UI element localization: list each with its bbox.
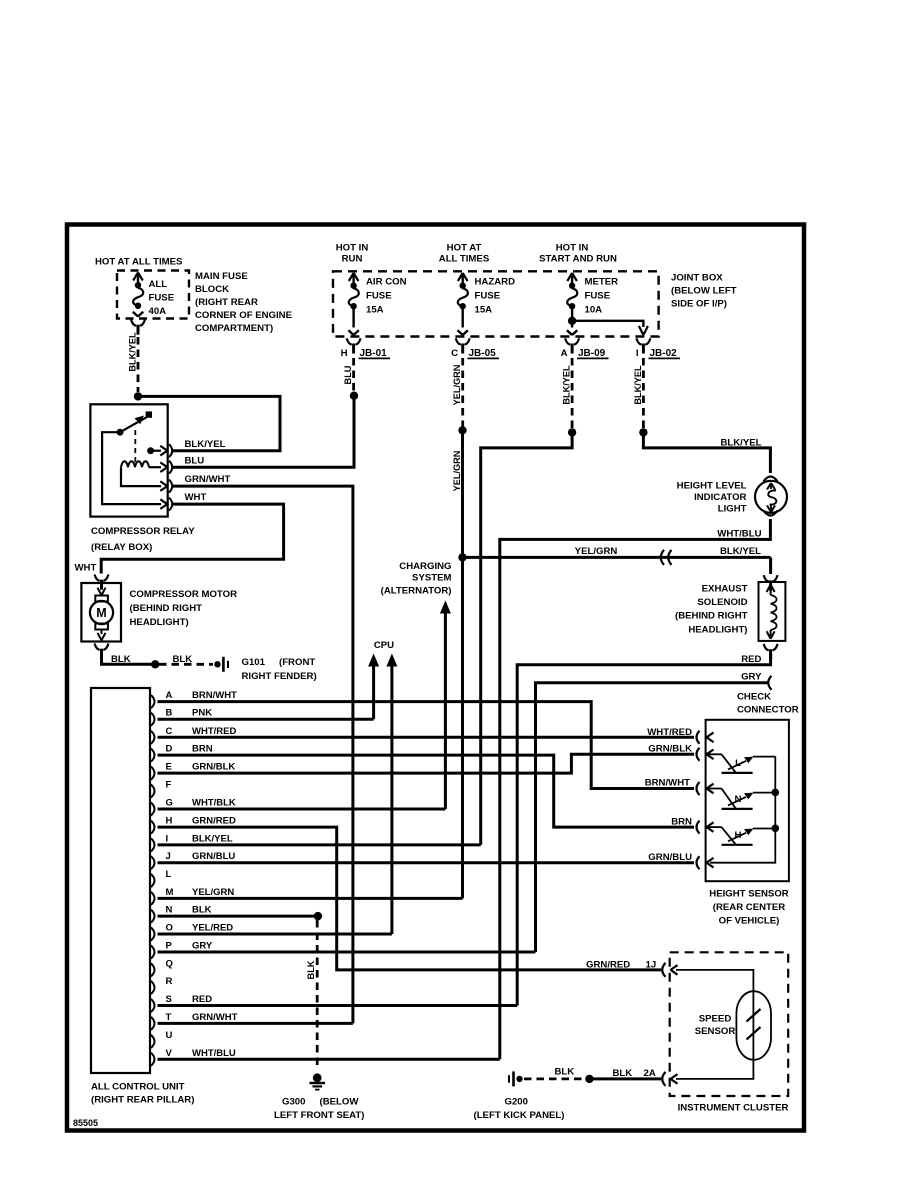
- connector above solenoid: [764, 575, 778, 590]
- fuse HAZARD 15A: [458, 273, 468, 335]
- wire GRN/WHT relay to row T: [172, 486, 353, 1023]
- svg-text:BRN/WHT: BRN/WHT: [192, 690, 237, 701]
- svg-text:ALL: ALL: [149, 279, 168, 290]
- svg-text:10A: 10A: [585, 305, 603, 316]
- wire row B PNK: [158, 718, 374, 721]
- svg-text:GRN/WHT: GRN/WHT: [192, 1012, 238, 1023]
- svg-text:N: N: [166, 905, 173, 916]
- wire YEL/GRN to solenoid: [463, 556, 771, 559]
- svg-text:HEIGHT LEVEL: HEIGHT LEVEL: [677, 481, 747, 492]
- svg-text:G200: G200: [505, 1097, 528, 1108]
- label BLK 2A: [613, 1068, 656, 1079]
- wire BLK dashed to G300: [316, 920, 319, 1070]
- wire row O YEL/RED: [158, 933, 392, 936]
- wire BLU to relay: [172, 396, 354, 468]
- connector below main fuse: [131, 320, 145, 335]
- cpu arrow 2: [386, 654, 397, 935]
- label HEIGHT SENSOR (REAR CENTER OF VEHICLE): [709, 889, 788, 927]
- wire YEL/GRN down to branch: [461, 430, 464, 557]
- svg-text:L: L: [735, 758, 741, 769]
- connector above motor: [95, 575, 109, 590]
- wire row E GRN/BLK: [158, 754, 695, 773]
- label CPU: [374, 640, 394, 651]
- wire BLK dashed from G200: [524, 1078, 585, 1081]
- svg-text:WHT: WHT: [75, 563, 97, 574]
- label CHARGING SYSTEM (ALTERNATOR): [381, 561, 452, 597]
- label GRN/BLU hs: [648, 852, 692, 863]
- control unit pin brackets: [151, 695, 155, 1066]
- svg-text:RED: RED: [192, 994, 212, 1005]
- svg-text:CPU: CPU: [374, 640, 394, 651]
- cluster wire from speed sensor: [676, 1060, 753, 1079]
- wire RED from solenoid: [517, 654, 770, 1006]
- connector below light: [764, 511, 778, 516]
- label BLU relay: [185, 456, 205, 467]
- svg-text:2A: 2A: [644, 1068, 656, 1079]
- wire row G WHT/BLK: [158, 808, 446, 811]
- svg-text:INSTRUMENT CLUSTER: INSTRUMENT CLUSTER: [678, 1103, 789, 1114]
- svg-text:CORNER OF ENGINE: CORNER OF ENGINE: [195, 310, 293, 321]
- svg-text:E: E: [166, 762, 172, 773]
- svg-text:METER: METER: [585, 277, 619, 288]
- label WHT relay: [185, 492, 207, 503]
- svg-text:FUSE: FUSE: [585, 291, 611, 302]
- motor circle M: [90, 601, 113, 624]
- inline connector break: [661, 550, 672, 565]
- node junction BLK motor: [151, 660, 159, 668]
- label GRN/RED 1J: [586, 960, 656, 971]
- connector below solenoid: [764, 644, 778, 659]
- wire BLK motor to ground: [102, 653, 153, 664]
- svg-text:BRN/WHT: BRN/WHT: [645, 778, 690, 789]
- svg-text:BLK/YEL: BLK/YEL: [720, 438, 761, 449]
- svg-text:BLK/YEL: BLK/YEL: [562, 365, 572, 405]
- svg-text:H: H: [341, 348, 348, 359]
- connector above light: [764, 477, 778, 482]
- connector I JB-02: [636, 338, 680, 359]
- svg-text:RED: RED: [741, 654, 761, 665]
- cluster contact 1J: [662, 963, 677, 977]
- wire meter fuse to JB-02 output: [572, 321, 648, 335]
- label BLK left: [111, 654, 131, 665]
- svg-text:1J: 1J: [646, 960, 657, 971]
- wire BLK/YEL JB-09 to row I vertical: [481, 432, 572, 845]
- svg-text:COMPRESSOR RELAY: COMPRESSOR RELAY: [91, 526, 195, 537]
- svg-text:LEFT FRONT SEAT): LEFT FRONT SEAT): [274, 1110, 364, 1121]
- node junction BLK/YEL JB-02: [639, 428, 647, 436]
- svg-text:LIGHT: LIGHT: [718, 504, 747, 515]
- svg-text:85505: 85505: [73, 1118, 98, 1128]
- svg-text:BRN: BRN: [192, 744, 213, 755]
- label HOT IN RUN: [336, 243, 369, 265]
- svg-text:BLK/YEL: BLK/YEL: [720, 546, 761, 557]
- svg-text:BLK/YEL: BLK/YEL: [185, 439, 226, 450]
- label HOT AT ALL TIMES (hazard): [439, 243, 490, 265]
- relay coil: [121, 461, 149, 467]
- label HOT AT ALL TIMES: [95, 257, 183, 268]
- svg-text:BLU: BLU: [343, 365, 353, 384]
- svg-text:H: H: [166, 816, 173, 827]
- label YEL/GRN horizontal: [575, 546, 618, 557]
- svg-text:YEL/GRN: YEL/GRN: [575, 546, 618, 557]
- svg-text:FUSE: FUSE: [149, 293, 175, 304]
- svg-text:ALL CONTROL UNIT: ALL CONTROL UNIT: [91, 1082, 185, 1093]
- ground G300: [310, 1073, 326, 1089]
- svg-text:JB-05: JB-05: [469, 348, 497, 359]
- svg-text:CHECK: CHECK: [737, 692, 771, 703]
- svg-text:J: J: [166, 851, 171, 862]
- label WHT near motor: [75, 563, 97, 574]
- svg-text:WHT/RED: WHT/RED: [192, 726, 236, 737]
- svg-text:(RIGHT REAR PILLAR): (RIGHT REAR PILLAR): [91, 1095, 194, 1106]
- wire WHT relay to motor: [101, 504, 283, 573]
- svg-text:C: C: [166, 726, 173, 737]
- wire BLK/YEL dashed from main fuse: [137, 337, 140, 392]
- svg-text:GRN/RED: GRN/RED: [192, 816, 236, 827]
- node junction BLK G200: [585, 1075, 593, 1083]
- svg-text:S: S: [166, 994, 172, 1005]
- svg-text:(BELOW: (BELOW: [320, 1097, 360, 1108]
- svg-text:L: L: [166, 869, 172, 880]
- connector C JB-05: [451, 338, 499, 359]
- svg-text:GRN/RED: GRN/RED: [586, 960, 630, 971]
- svg-text:YEL/GRN: YEL/GRN: [192, 887, 234, 898]
- connector below motor: [95, 644, 109, 659]
- svg-text:WHT/BLU: WHT/BLU: [192, 1048, 236, 1059]
- height sensor element H: [708, 827, 775, 845]
- label AIR CON FUSE 15A: [366, 277, 407, 316]
- wire row J GRN/BLU: [158, 861, 695, 864]
- motor top arrow: [98, 583, 106, 595]
- svg-text:M: M: [166, 887, 174, 898]
- label BLK/YEL vertical JB-02: [633, 365, 643, 405]
- svg-text:RUN: RUN: [342, 254, 363, 265]
- wire BLK dashed to G101: [159, 663, 213, 666]
- relay contact brackets: [169, 444, 172, 510]
- svg-text:P: P: [166, 941, 173, 952]
- height sensor bus: [710, 756, 775, 862]
- svg-text:WHT/BLK: WHT/BLK: [192, 798, 236, 809]
- label JOINT BOX: [671, 273, 737, 310]
- node meter fuse branch: [568, 317, 576, 325]
- label YEL/GRN vertical upper: [452, 364, 462, 405]
- svg-text:YEL/GRN: YEL/GRN: [452, 364, 462, 405]
- label CHECK CONNECTOR: [737, 692, 799, 716]
- label WHT/RED hs: [647, 727, 692, 738]
- indicator light circle: [755, 481, 787, 513]
- svg-text:GRY: GRY: [192, 941, 213, 952]
- label HEIGHT LEVEL INDICATOR LIGHT: [677, 481, 747, 515]
- wire row I BLK/YEL: [158, 843, 481, 846]
- svg-text:H: H: [735, 830, 742, 841]
- label BLK/YEL relay: [185, 439, 226, 450]
- svg-text:G300: G300: [282, 1097, 305, 1108]
- label BLU vertical: [343, 365, 353, 384]
- label BLK G200: [555, 1067, 575, 1078]
- svg-text:COMPARTMENT): COMPARTMENT): [195, 323, 273, 334]
- node bus junction N: [772, 789, 780, 797]
- charging system arrow: [440, 601, 451, 810]
- svg-text:HOT AT: HOT AT: [447, 243, 482, 254]
- svg-text:B: B: [166, 708, 173, 719]
- fuse METER 10A: [567, 273, 577, 335]
- svg-text:BLK: BLK: [111, 654, 131, 665]
- label BLK/YEL vertical: [128, 332, 138, 372]
- relay coil to GRN/WHT contact: [121, 467, 167, 491]
- svg-text:ALL TIMES: ALL TIMES: [439, 254, 490, 265]
- svg-text:(REAR CENTER: (REAR CENTER: [713, 902, 786, 913]
- cluster contact 2A: [662, 1072, 677, 1086]
- relay coil to BLU contact: [149, 462, 168, 472]
- svg-text:BLK: BLK: [613, 1068, 633, 1079]
- svg-text:HOT AT ALL TIMES: HOT AT ALL TIMES: [95, 257, 183, 268]
- label MAIN FUSE BLOCK: [195, 271, 293, 334]
- svg-text:JOINT BOX: JOINT BOX: [671, 273, 723, 284]
- height sensor box: [706, 720, 789, 881]
- svg-text:O: O: [166, 923, 173, 934]
- svg-text:15A: 15A: [475, 305, 493, 316]
- motor commutator top: [95, 596, 108, 602]
- svg-text:C: C: [451, 348, 458, 359]
- svg-text:40A: 40A: [149, 306, 167, 317]
- height sensor element L: [708, 754, 775, 773]
- svg-text:BLOCK: BLOCK: [195, 284, 229, 295]
- ground G101: [214, 657, 228, 672]
- label GRN/WHT relay: [185, 474, 231, 485]
- wire row A BRN/WHT: [158, 702, 695, 789]
- check connector bracket: [768, 676, 771, 690]
- label METER FUSE 10A: [585, 277, 619, 316]
- wire YEL/GRN down to row M: [461, 557, 464, 898]
- wire BLK/YEL dashed from JB-02: [642, 358, 645, 429]
- fuse ALL FUSE 40A: [133, 273, 143, 317]
- svg-text:(LEFT KICK PANEL): (LEFT KICK PANEL): [474, 1110, 565, 1121]
- cpu arrow 1: [368, 654, 379, 720]
- svg-text:MAIN FUSE: MAIN FUSE: [195, 271, 248, 282]
- svg-text:EXHAUST: EXHAUST: [702, 584, 748, 595]
- svg-text:(BEHIND RIGHT: (BEHIND RIGHT: [130, 603, 203, 614]
- svg-text:BLK: BLK: [192, 905, 212, 916]
- svg-text:AIR CON: AIR CON: [366, 277, 407, 288]
- svg-text:I: I: [166, 833, 169, 844]
- svg-text:YEL/RED: YEL/RED: [192, 923, 233, 934]
- speed sensor element: [747, 992, 761, 1060]
- svg-text:A: A: [166, 690, 173, 701]
- label INSTRUMENT CLUSTER: [678, 1103, 789, 1114]
- wire row D BRN: [158, 755, 695, 827]
- exhaust solenoid box: [759, 582, 786, 641]
- svg-text:CHARGING: CHARGING: [399, 561, 451, 572]
- svg-text:HAZARD: HAZARD: [475, 277, 516, 288]
- svg-text:A: A: [561, 348, 568, 359]
- wire WHT/BLU from light: [500, 519, 771, 1059]
- svg-text:F: F: [166, 780, 172, 791]
- label COMPRESSOR MOTOR: [130, 589, 238, 628]
- svg-text:COMPRESSOR MOTOR: COMPRESSOR MOTOR: [130, 589, 238, 600]
- label ALL CONTROL UNIT: [91, 1082, 194, 1106]
- svg-text:WHT: WHT: [185, 492, 207, 503]
- joint box dashed box: [333, 271, 659, 336]
- speed sensor oval: [736, 991, 771, 1060]
- motor bottom arrow: [98, 630, 106, 641]
- all control unit box: [91, 688, 150, 1073]
- wire BLK/YEL JB-02 to indicator light: [643, 432, 770, 473]
- svg-text:YEL/GRN: YEL/GRN: [452, 450, 462, 491]
- label SPEED SENSOR: [695, 1014, 736, 1038]
- wire YEL/GRN dashed from JB-05: [461, 358, 464, 427]
- wire row T GRN/WHT: [158, 1022, 353, 1025]
- wire BLK/YEL dashed from JB-09: [571, 358, 574, 429]
- wire BLU dashed from JB-01: [352, 358, 355, 392]
- svg-text:Q: Q: [166, 958, 173, 969]
- height sensor element N: [708, 789, 775, 809]
- label BLK vertical: [306, 960, 316, 979]
- svg-text:G: G: [166, 798, 173, 809]
- svg-text:(RELAY BOX): (RELAY BOX): [91, 542, 152, 553]
- svg-text:SYSTEM: SYSTEM: [412, 573, 451, 584]
- label G300 (BELOW LEFT FRONT SEAT): [274, 1097, 364, 1122]
- border frame: [67, 225, 804, 1131]
- label YEL/GRN vertical lower: [452, 450, 462, 491]
- svg-text:JB-02: JB-02: [650, 348, 678, 359]
- wire BLK/YEL fuse to relay: [138, 396, 280, 450]
- svg-text:HEADLIGHT): HEADLIGHT): [688, 625, 747, 636]
- relay switch: [117, 411, 153, 462]
- cluster wire to speed sensor: [676, 970, 753, 992]
- svg-text:(BELOW LEFT: (BELOW LEFT: [671, 286, 737, 297]
- svg-text:D: D: [166, 744, 173, 755]
- label BLK right: [173, 654, 193, 665]
- wire row M YEL/GRN: [158, 897, 463, 900]
- svg-text:GRY: GRY: [741, 672, 762, 683]
- wire row H GRN/RED: [158, 827, 662, 970]
- motor commutator bottom: [95, 624, 108, 630]
- label HOT IN START AND RUN: [539, 243, 617, 265]
- label BRN hs: [671, 817, 692, 828]
- svg-text:T: T: [166, 1012, 172, 1023]
- svg-text:BLK: BLK: [555, 1067, 575, 1078]
- svg-text:(BEHIND RIGHT: (BEHIND RIGHT: [675, 611, 748, 622]
- main fuse block dashed box: [117, 271, 189, 319]
- svg-text:G101: G101: [242, 657, 266, 668]
- svg-text:(RIGHT REAR: (RIGHT REAR: [195, 297, 258, 308]
- svg-text:JB-01: JB-01: [360, 348, 388, 359]
- svg-text:BLK/YEL: BLK/YEL: [192, 833, 233, 844]
- label COMPRESSOR RELAY: [91, 526, 195, 553]
- svg-text:15A: 15A: [366, 305, 384, 316]
- svg-text:N: N: [735, 794, 742, 805]
- node junction main-fuse BLK/YEL: [134, 392, 142, 400]
- label RED: [741, 654, 761, 665]
- relay BLK/YEL contact: [147, 446, 167, 456]
- svg-text:WHT/BLU: WHT/BLU: [717, 529, 761, 540]
- svg-text:BLK/YEL: BLK/YEL: [633, 365, 643, 405]
- svg-text:GRN/WHT: GRN/WHT: [185, 474, 231, 485]
- svg-text:HEADLIGHT): HEADLIGHT): [130, 617, 189, 628]
- control unit pin labels: [166, 690, 238, 1059]
- label BLK/YEL solenoid: [720, 546, 761, 557]
- label G200 (LEFT KICK PANEL): [474, 1097, 565, 1122]
- svg-text:FUSE: FUSE: [475, 291, 501, 302]
- node junction YEL/GRN upper: [458, 426, 466, 434]
- fuse AIR CON 15A: [348, 273, 358, 335]
- label BLK/YEL horizontal top: [720, 438, 761, 449]
- svg-text:START AND RUN: START AND RUN: [539, 254, 617, 265]
- svg-text:HEIGHT SENSOR: HEIGHT SENSOR: [709, 889, 788, 900]
- wire row C WHT/RED: [158, 736, 695, 739]
- connector A JB-09: [561, 338, 609, 359]
- svg-text:(FRONT: (FRONT: [279, 657, 315, 668]
- svg-text:CONNECTOR: CONNECTOR: [737, 705, 799, 716]
- svg-text:BLU: BLU: [185, 456, 205, 467]
- svg-text:(ALTERNATOR): (ALTERNATOR): [381, 586, 452, 597]
- label BRN/WHT hs: [645, 778, 690, 789]
- svg-text:R: R: [166, 976, 173, 987]
- svg-text:SIDE OF I/P): SIDE OF I/P): [671, 299, 727, 310]
- svg-text:JB-09: JB-09: [578, 348, 606, 359]
- svg-text:GRN/BLU: GRN/BLU: [192, 851, 235, 862]
- label WHT/BLU light: [717, 529, 761, 540]
- svg-text:HOT IN: HOT IN: [336, 243, 369, 254]
- svg-text:BLK: BLK: [306, 960, 316, 979]
- instrument cluster dashed box: [670, 952, 789, 1096]
- label G101 (FRONT RIGHT FENDER): [242, 657, 317, 682]
- wire BLK solid to cluster: [593, 1077, 661, 1080]
- svg-text:HOT IN: HOT IN: [556, 243, 589, 254]
- node junction BLK/YEL JB-09: [568, 428, 576, 436]
- svg-text:FUSE: FUSE: [366, 291, 392, 302]
- svg-text:RIGHT FENDER): RIGHT FENDER): [242, 671, 317, 682]
- node bus junction H: [772, 825, 780, 833]
- svg-text:I: I: [636, 348, 639, 359]
- wire row P GRY: [158, 951, 536, 954]
- wire row N BLK: [158, 915, 318, 918]
- ground G200: [509, 1071, 523, 1086]
- svg-text:SENSOR: SENSOR: [695, 1026, 736, 1037]
- label GRN/BLK hs: [648, 744, 692, 755]
- wire GRY: [536, 683, 769, 952]
- indicator light filament: [767, 483, 776, 512]
- label ALL FUSE 40A: [149, 279, 175, 317]
- svg-text:SPEED: SPEED: [699, 1014, 732, 1025]
- svg-text:BLK/YEL: BLK/YEL: [128, 332, 138, 372]
- svg-text:SOLENOID: SOLENOID: [697, 597, 747, 608]
- svg-text:OF VEHICLE): OF VEHICLE): [719, 916, 780, 927]
- wire BLK/YEL down to solenoid: [769, 557, 772, 574]
- solenoid element: [767, 585, 777, 639]
- height sensor contacts: [697, 731, 714, 869]
- label GRY: [741, 672, 762, 683]
- node junction YEL/GRN branch: [458, 553, 466, 561]
- label EXHAUST SOLENOID: [675, 584, 748, 636]
- label HAZARD FUSE 15A: [475, 277, 516, 316]
- svg-text:INDICATOR: INDICATOR: [694, 492, 746, 503]
- wire row S RED: [158, 1004, 518, 1007]
- wire row V WHT/BLU: [158, 1058, 500, 1061]
- relay switch common rail: [102, 432, 167, 509]
- compressor motor box: [81, 583, 121, 642]
- svg-text:BLK: BLK: [173, 654, 193, 665]
- svg-text:GRN/BLK: GRN/BLK: [192, 762, 235, 773]
- svg-text:U: U: [166, 1030, 173, 1041]
- connector H JB-01: [341, 338, 390, 359]
- node junction BLU: [350, 392, 358, 400]
- svg-text:V: V: [166, 1048, 173, 1059]
- compressor relay box: [90, 404, 167, 516]
- label 85505: [73, 1118, 98, 1128]
- label BLK/YEL vertical JB-09: [562, 365, 572, 405]
- svg-text:M: M: [96, 606, 106, 620]
